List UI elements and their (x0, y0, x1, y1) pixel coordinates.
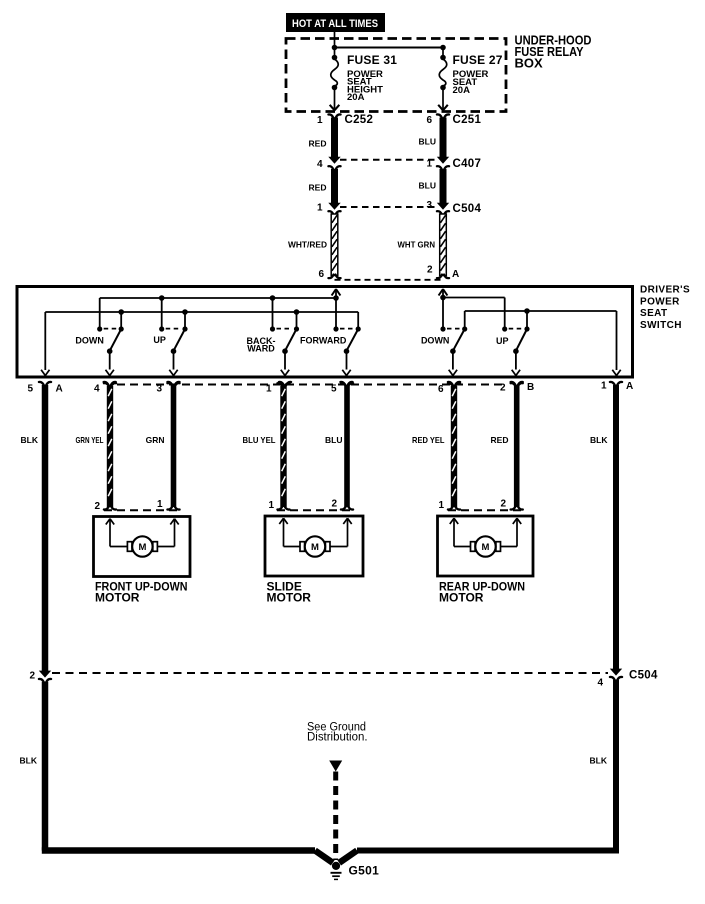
svg-text:POWER: POWER (640, 296, 680, 307)
svg-text:BOX: BOX (515, 56, 544, 71)
svg-text:WHT GRN: WHT GRN (398, 240, 436, 250)
svg-text:M: M (138, 542, 146, 553)
svg-text:M: M (311, 542, 319, 553)
svg-text:Distribution.: Distribution. (307, 732, 368, 744)
svg-text:1: 1 (426, 159, 432, 170)
svg-text:C251: C251 (453, 114, 482, 126)
svg-text:A: A (452, 269, 459, 280)
svg-text:M: M (482, 542, 490, 553)
svg-text:2: 2 (29, 671, 35, 682)
svg-text:20A: 20A (347, 92, 365, 103)
svg-text:1: 1 (266, 384, 272, 395)
svg-text:1: 1 (438, 500, 444, 511)
svg-text:GRN YEL: GRN YEL (76, 435, 104, 445)
svg-text:MOTOR: MOTOR (267, 591, 312, 605)
svg-text:DOWN: DOWN (421, 336, 450, 346)
svg-text:1: 1 (317, 115, 323, 126)
svg-text:C252: C252 (345, 114, 374, 126)
svg-text:GRN: GRN (146, 435, 165, 445)
svg-text:1: 1 (601, 381, 607, 392)
svg-text:HOT AT ALL TIMES: HOT AT ALL TIMES (292, 18, 378, 30)
svg-text:WARD: WARD (247, 343, 275, 353)
svg-text:RED: RED (491, 435, 509, 445)
svg-text:6: 6 (438, 384, 444, 395)
svg-text:BLK: BLK (590, 756, 608, 766)
svg-text:A: A (626, 381, 633, 392)
svg-text:BLU: BLU (419, 181, 436, 191)
svg-text:2: 2 (500, 499, 506, 510)
svg-text:C504: C504 (453, 203, 482, 215)
svg-text:RED: RED (309, 139, 327, 149)
svg-text:B: B (527, 382, 534, 393)
svg-text:BLK: BLK (590, 435, 608, 445)
svg-text:SEAT: SEAT (640, 308, 668, 319)
svg-text:6: 6 (426, 115, 432, 126)
svg-text:A: A (56, 384, 63, 395)
svg-text:BLK: BLK (21, 435, 39, 445)
svg-text:MOTOR: MOTOR (95, 591, 140, 605)
svg-text:1: 1 (317, 203, 323, 214)
svg-text:5: 5 (331, 384, 337, 395)
svg-text:4: 4 (597, 678, 603, 689)
svg-text:RED YEL: RED YEL (412, 435, 445, 445)
svg-text:C504: C504 (629, 670, 658, 682)
svg-text:2: 2 (427, 265, 433, 276)
svg-text:3: 3 (426, 200, 432, 211)
svg-text:3: 3 (156, 384, 162, 395)
svg-text:20A: 20A (453, 85, 471, 96)
svg-text:C407: C407 (453, 158, 482, 170)
svg-text:1: 1 (157, 499, 163, 510)
svg-text:BLU: BLU (419, 137, 436, 147)
svg-text:DOWN: DOWN (75, 336, 104, 346)
svg-text:2: 2 (94, 501, 100, 512)
svg-text:UP: UP (153, 335, 166, 345)
svg-text:UP: UP (496, 336, 509, 346)
svg-text:2: 2 (331, 499, 337, 510)
svg-text:SWITCH: SWITCH (640, 320, 682, 331)
svg-text:BLU YEL: BLU YEL (243, 435, 276, 445)
svg-text:6: 6 (318, 269, 324, 280)
svg-text:BLK: BLK (20, 756, 38, 766)
svg-text:DRIVER'S: DRIVER'S (640, 285, 690, 296)
svg-text:1: 1 (268, 500, 274, 511)
svg-text:4: 4 (94, 384, 100, 395)
svg-text:FUSE 31: FUSE 31 (347, 53, 397, 67)
svg-text:G501: G501 (349, 864, 380, 878)
svg-text:BLU: BLU (325, 435, 342, 445)
svg-text:RED: RED (309, 183, 327, 193)
svg-text:5: 5 (27, 384, 33, 395)
svg-text:WHT/RED: WHT/RED (288, 240, 327, 250)
svg-text:FORWARD: FORWARD (300, 336, 347, 346)
svg-text:FUSE 27: FUSE 27 (453, 53, 503, 67)
svg-text:2: 2 (500, 383, 506, 394)
svg-text:4: 4 (317, 159, 323, 170)
svg-text:MOTOR: MOTOR (439, 591, 484, 605)
